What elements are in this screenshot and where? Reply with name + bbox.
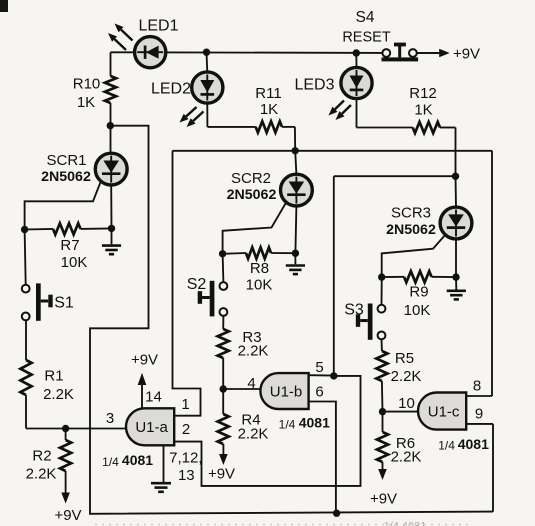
svg-text:SCR3: SCR3: [391, 205, 431, 222]
svg-text:2.2K: 2.2K: [391, 368, 422, 385]
svg-text:1K: 1K: [77, 94, 95, 111]
svg-text:2.2K: 2.2K: [238, 343, 269, 360]
svg-text:+9V: +9V: [54, 507, 81, 524]
svg-text:S4: S4: [356, 9, 375, 26]
svg-text:R11: R11: [255, 85, 281, 102]
svg-text:4081: 4081: [458, 436, 489, 452]
svg-text:10K: 10K: [404, 302, 431, 319]
svg-text:R10: R10: [73, 76, 101, 93]
svg-text:R12: R12: [409, 85, 437, 102]
svg-text:13: 13: [178, 467, 195, 484]
svg-text:S3: S3: [344, 302, 364, 319]
svg-text:10K: 10K: [61, 254, 88, 271]
svg-text:+9V: +9V: [453, 46, 480, 63]
svg-text:+9V: +9V: [131, 352, 158, 369]
svg-text:10K: 10K: [246, 277, 273, 294]
svg-text:4: 4: [247, 375, 255, 392]
svg-text:1K: 1K: [414, 102, 432, 119]
svg-text:5: 5: [315, 359, 323, 376]
svg-text:LED2: LED2: [151, 81, 191, 98]
svg-text:4081: 4081: [299, 415, 330, 431]
svg-text:4081: 4081: [122, 452, 153, 468]
svg-text:+9V: +9V: [208, 466, 235, 483]
svg-text:1K: 1K: [260, 101, 278, 118]
svg-text:2N5062: 2N5062: [227, 187, 277, 203]
svg-text:S2: S2: [187, 276, 207, 293]
svg-text:U1-c: U1-c: [428, 403, 460, 420]
svg-text:1/4: 1/4: [438, 439, 455, 453]
svg-text:2N5062: 2N5062: [41, 169, 91, 185]
svg-text:1/4 4081: 1/4 4081: [384, 521, 427, 526]
svg-text:2.2K: 2.2K: [391, 449, 422, 466]
svg-text:2.2K: 2.2K: [238, 426, 269, 443]
svg-text:9: 9: [475, 406, 483, 423]
svg-text:S1: S1: [54, 295, 74, 312]
svg-text:14: 14: [145, 389, 162, 406]
svg-text:RESET: RESET: [342, 30, 390, 46]
svg-text:10: 10: [398, 395, 415, 412]
svg-text:LED1: LED1: [138, 18, 178, 35]
svg-text:R5: R5: [395, 350, 414, 367]
svg-text:R9: R9: [409, 284, 428, 301]
svg-text:U1-b: U1-b: [270, 383, 303, 400]
svg-text:2.2K: 2.2K: [26, 466, 57, 483]
svg-text:SCR1: SCR1: [46, 152, 86, 169]
svg-text:3: 3: [106, 410, 114, 427]
svg-text:2: 2: [182, 421, 190, 438]
svg-text:+9V: +9V: [370, 491, 397, 508]
svg-text:2.2K: 2.2K: [43, 386, 74, 403]
svg-text:R1: R1: [44, 368, 63, 385]
svg-text:U1-a: U1-a: [135, 419, 168, 436]
svg-text:R8: R8: [250, 260, 269, 277]
svg-text:7,12,: 7,12,: [169, 450, 202, 467]
svg-text:2N5062: 2N5062: [386, 222, 436, 238]
svg-text:R7: R7: [60, 237, 79, 254]
svg-text:1/4: 1/4: [102, 455, 119, 469]
svg-text:LED3: LED3: [294, 77, 334, 94]
svg-text:8: 8: [473, 378, 481, 395]
svg-text:SCR2: SCR2: [231, 170, 271, 187]
svg-text:6: 6: [315, 384, 323, 401]
svg-text:R2: R2: [32, 448, 51, 465]
svg-text:1/4: 1/4: [279, 418, 296, 432]
svg-text:1: 1: [181, 396, 189, 413]
